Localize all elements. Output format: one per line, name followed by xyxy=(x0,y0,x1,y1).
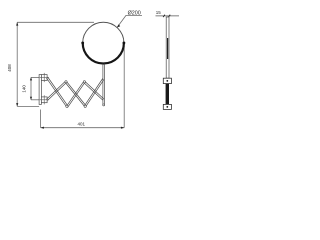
node scissor pin T1 xyxy=(65,81,67,83)
node scissor pin T2 xyxy=(83,81,85,83)
mirror yoke thick arc xyxy=(83,43,124,64)
node arrow 140 top xyxy=(30,77,32,80)
svg-text:401: 401 xyxy=(78,121,86,126)
scissor arm A1 xyxy=(47,81,67,100)
side view top block xyxy=(163,78,171,83)
bracket pivot block bottom xyxy=(41,97,47,103)
node leader arrowhead xyxy=(117,24,120,27)
side view solid bar xyxy=(166,84,169,105)
node bottom block dot xyxy=(166,106,168,108)
wire 401 left extension line xyxy=(40,110,42,128)
node arrow 408 bottom xyxy=(16,103,18,106)
side view inner edge xyxy=(167,38,169,59)
node cross top pivot xyxy=(40,77,49,79)
wire 140 top extension line xyxy=(31,76,41,78)
node arrow 408 top xyxy=(16,22,18,25)
node scissor pin B1 xyxy=(66,105,68,107)
side view dimension line 15 xyxy=(156,15,180,17)
svg-text:15: 15 xyxy=(156,10,162,15)
node arrow 401 left xyxy=(41,127,44,129)
node cross bottom pivot xyxy=(40,99,49,101)
svg-text:140: 140 xyxy=(22,85,27,93)
scissor arm D1 xyxy=(46,77,104,108)
wall bracket bar xyxy=(39,75,41,105)
scissor arm D3 xyxy=(84,82,104,101)
node scissor pin B2 xyxy=(84,105,86,107)
node top block dot xyxy=(166,80,168,82)
node arrow 401 right xyxy=(121,127,124,129)
node tick 15 right xyxy=(168,15,170,17)
node yoke pivot right xyxy=(123,42,126,45)
node stem bottom pivot xyxy=(103,104,105,106)
side view bottom block xyxy=(163,104,171,109)
wire 140 bottom extension line xyxy=(31,99,41,101)
side view bar xyxy=(166,17,169,78)
wire 401 dimension line xyxy=(41,127,125,129)
wire 401 right extension line xyxy=(123,46,125,128)
node arrow 140 bottom xyxy=(30,97,32,100)
wire leader line Ø200 xyxy=(117,15,142,27)
wire top extension line (408 top) xyxy=(17,21,94,23)
svg-text:Ø200: Ø200 xyxy=(128,10,141,16)
node tick 15 left xyxy=(163,15,165,17)
wire 408 dimension line xyxy=(16,22,18,106)
wire 408 bottom extension line xyxy=(17,105,39,107)
mirror circle xyxy=(83,22,124,63)
wire 140 dimension line xyxy=(30,77,32,99)
node yoke pivot left xyxy=(81,42,84,45)
svg-text:408: 408 xyxy=(7,64,12,72)
stem below mirror xyxy=(102,64,104,105)
scissor arm A2 xyxy=(66,81,85,107)
scissor arm D2 xyxy=(65,82,85,107)
scissor arm A3 xyxy=(85,79,105,107)
bracket pivot block top xyxy=(41,75,47,81)
